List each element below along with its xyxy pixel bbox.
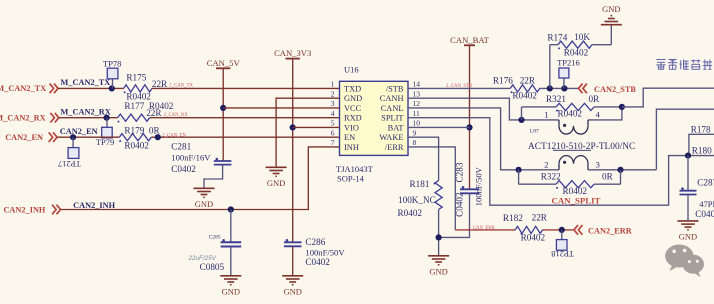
wire VCC row [223,107,339,109]
svg-text:GND: GND [429,266,447,276]
label ACT1210-510-2P-TL00/NC [528,142,635,152]
svg-text:CAN_3V3: CAN_3V3 [274,48,311,58]
svg-text:R0402: R0402 [398,208,423,218]
svg-text:22R: 22R [152,79,168,89]
svg-text:0R: 0R [589,94,601,104]
svg-text:7: 7 [331,138,335,147]
svg-text:/ERR: /ERR [385,143,404,152]
polarity dot bottom winding [563,161,566,164]
svg-text:3: 3 [596,160,601,170]
wire RX row [59,117,340,119]
svg-text:R0402: R0402 [124,141,149,151]
svg-text:4: 4 [596,110,601,120]
svg-text:EN: EN [344,133,355,142]
junction ERR/TP218 [559,227,565,233]
ground R181 [428,256,449,276]
wire CANL [408,108,559,170]
svg-text:BAT: BAT [388,123,404,132]
svg-text:GND: GND [267,178,285,188]
svg-text:22R: 22R [532,212,548,222]
svg-text:100nF/50V: 100nF/50V [473,166,483,206]
ground inverted top right [601,4,622,25]
resistor R181 [434,181,443,210]
svg-text:CANL: CANL [381,104,404,113]
svg-text:4: 4 [331,109,335,118]
wire R321 left stub [521,107,523,120]
wire C285 to ground [230,247,232,276]
junction CAN_5V/VCC [220,105,226,111]
port M_CAN2_RX [0,113,59,123]
junction choke pin1/R321 [518,117,524,123]
svg-text:GND: GND [344,94,362,103]
svg-text:R179 0R: R179 0R [124,126,160,136]
resistor R177 [118,114,150,123]
junction INH/C285 [228,206,234,212]
svg-text:R181: R181 [410,179,430,189]
svg-text:3: 3 [331,99,335,108]
junction STB/TP216 [561,85,567,91]
port CAN2_STB [579,84,637,94]
port CAN2_EN [5,132,57,142]
svg-text:M_CAN2_RX: M_CAN2_RX [61,108,111,117]
svg-text:R178: R178 [691,124,711,134]
svg-text:C0402: C0402 [695,209,714,219]
svg-text:TXD: TXD [344,84,361,93]
svg-text:5: 5 [331,119,335,128]
wire CANL out [656,109,714,170]
svg-text:C283: C283 [455,162,465,182]
svg-text:SPLIT: SPLIT [381,114,403,123]
svg-text:C285: C285 [209,235,221,241]
svg-text:2: 2 [544,160,548,170]
capacitor C286 [284,239,302,246]
svg-text:CAN_SPLIT: CAN_SPLIT [552,195,601,205]
svg-text:22R: 22R [520,75,536,85]
svg-text:R182: R182 [503,213,523,223]
wire GND pin2 [276,98,339,167]
wire EN row [57,136,339,138]
svg-text:/STB: /STB [386,84,404,93]
svg-text:R0402: R0402 [564,48,589,58]
svg-text:R322: R322 [541,171,561,181]
svg-text:TJA1043T: TJA1043T [336,164,374,174]
svg-text:CAN2_INH: CAN2_INH [73,201,115,210]
wire CAN_BAT stem [469,45,471,189]
capacitor C287 [680,187,697,194]
junction EN after R179 [155,134,161,140]
power CAN_3V3 [274,48,311,59]
wire choke top row right [588,107,622,120]
wire INH row [61,147,340,210]
wire R174 left stub [549,45,551,89]
wire STB row [408,87,579,89]
svg-text:GND: GND [222,286,240,296]
svg-text:CAN_BAT: CAN_BAT [450,35,489,45]
svg-text:RXD: RXD [344,114,362,123]
ground C287 [678,221,699,242]
resistor R175 [124,85,152,94]
svg-text:2: 2 [331,89,335,98]
junction RX/TP79 [104,115,110,121]
svg-text:GND: GND [283,286,301,296]
svg-text:10: 10 [413,119,421,128]
wire WAKE pin [408,137,439,180]
resistor R174 [550,41,612,49]
testpoint TP79 [96,118,114,148]
testpoint TP78 [103,58,121,88]
wire C286 to ground [292,246,294,275]
power CAN_5V [207,58,241,69]
capacitor C283 [460,186,479,193]
wire ERR red [455,229,574,231]
svg-text:TP216: TP216 [557,57,580,67]
svg-text:R321: R321 [546,94,566,104]
svg-text:1: 1 [331,80,335,89]
svg-text:GND: GND [679,231,697,241]
svg-text:CAN2_EN: CAN2_EN [5,133,43,142]
svg-text:CAN2_ERR: CAN2_ERR [588,226,633,235]
svg-text:GND: GND [195,199,213,209]
ground IC pin2 [266,167,287,188]
junction choke pin2/R322 [516,167,522,173]
wire C281 to ground [204,165,223,189]
testpoint TP217 [58,137,81,169]
wire choke bottom row right [588,169,656,171]
svg-text:13: 13 [413,89,421,98]
svg-text:2_CAN_EN: 2_CAN_EN [162,134,186,139]
svg-text:VIO: VIO [344,123,359,132]
svg-text:8: 8 [413,138,417,147]
wire ERR pin [408,147,455,230]
wire CANH out [622,88,714,107]
resistor R179 [119,134,151,143]
svg-text:SOP-14: SOP-14 [337,174,365,184]
svg-text:R176: R176 [493,75,513,85]
svg-text:2_CAN_RX: 2_CAN_RX [164,113,189,118]
svg-text:22R: 22R [146,108,162,118]
wire R181 to ground [438,210,440,256]
svg-text:C287: C287 [697,178,714,188]
inductor L87 bottom winding [559,156,588,170]
svg-text:R0402: R0402 [521,233,546,243]
wire R322 left stub [518,170,520,184]
svg-text:CAN2_INH: CAN2_INH [3,205,45,214]
wire C283 to ground node [439,193,470,237]
ground C285 [220,276,241,297]
testpoint TP216 [557,57,580,88]
op-amp U1 IC body U16 [340,81,409,155]
svg-text:10K: 10K [574,32,590,42]
svg-text:M_CAN2_TX: M_CAN2_TX [61,78,111,87]
svg-text:R0402: R0402 [558,109,583,119]
svg-text:14: 14 [413,80,421,89]
junction TX/TP78 [109,85,115,91]
svg-text:R175: R175 [126,72,146,82]
svg-text:12: 12 [413,99,421,108]
svg-text:2_CAN_ERR: 2_CAN_ERR [468,226,495,231]
wire CANH [408,98,559,120]
ground C286 [282,276,303,297]
svg-text:6: 6 [331,128,335,137]
watermark wechat icon [665,245,704,278]
svg-text:R174: R174 [547,32,567,42]
power CAN_BAT [450,35,489,46]
junction R181/C283 ground node [436,234,442,240]
wire R178 row [689,134,714,155]
svg-text:R180: R180 [692,146,712,156]
svg-text:TP78: TP78 [103,58,121,68]
inductor L87 top winding [559,120,588,134]
svg-text:TP218: TP218 [551,249,574,259]
svg-text:47PF/50V: 47PF/50V [699,199,714,209]
wire R322 right stub [620,170,622,184]
wire GND stem top [610,25,612,45]
junction STB/R174 [547,85,553,91]
wire C285 stem [230,210,232,243]
resistor R321 [522,103,622,111]
junction EN/TP217 [70,134,76,140]
svg-text:100nF/16V: 100nF/16V [171,153,211,163]
svg-text:CAN2_EN: CAN2_EN [60,127,98,136]
wire C287 stem [687,156,689,191]
svg-text:WAKE: WAKE [379,133,403,142]
port CAN2_INH [3,205,60,215]
polarity dot top winding [563,124,566,127]
svg-text:C0402: C0402 [171,164,196,174]
svg-text:R0402: R0402 [512,91,537,101]
svg-text:L87: L87 [530,129,539,135]
svg-text:TP79: TP79 [96,137,114,147]
svg-text:M_CAN2_RX: M_CAN2_RX [0,114,46,123]
resistor R176 [510,85,539,94]
svg-text:CAN2_STB: CAN2_STB [594,85,636,94]
port M_CAN2_TX [0,84,58,94]
capacitor C281 [214,158,232,165]
ground C281 [194,188,215,209]
svg-text:2_CAN_STB: 2_CAN_STB [446,84,472,89]
testpoint TP218 [551,230,574,259]
svg-text:C0402: C0402 [455,192,465,217]
junction R321 right node [619,104,625,110]
svg-text:M_CAN2_TX: M_CAN2_TX [0,84,46,93]
resistor R322 [519,181,621,189]
wire CAN_5V stem [222,68,224,161]
svg-text:CANH: CANH [380,94,404,103]
svg-text:2_CAN_TX: 2_CAN_TX [169,84,193,89]
svg-text:C0402: C0402 [305,257,330,267]
wire BAT pin [408,126,470,128]
svg-text:1: 1 [544,110,548,120]
svg-text:22uF/25V: 22uF/25V [188,255,217,262]
wire CAN_SPLIT [408,118,714,206]
wire C287 to ground [687,195,689,221]
junction CAN_3V3/VIO [290,124,296,130]
svg-text:TP217: TP217 [58,159,81,169]
svg-text:VCC: VCC [344,104,362,113]
junction R322 right node [617,167,623,173]
svg-text:100K_NC: 100K_NC [398,195,436,205]
svg-text:C281: C281 [171,141,191,151]
wire TX row [58,87,340,89]
annotation chinese text [656,60,714,70]
junction R180/C287 [685,153,691,159]
svg-text:C286: C286 [305,237,325,247]
svg-text:INH: INH [344,143,359,152]
wire VIO row [293,126,340,128]
svg-text:CAN_5V: CAN_5V [207,58,241,68]
svg-text:0R: 0R [602,171,614,181]
svg-text:9: 9 [413,128,417,137]
resistor R182 [515,226,542,234]
svg-text:C0805: C0805 [200,262,225,272]
wire CAN_3V3 stem [292,59,294,243]
svg-text:11: 11 [413,109,420,118]
svg-text:GND: GND [602,4,620,14]
junction CAN_BAT/BAT [466,124,472,130]
svg-text:U16: U16 [344,65,359,75]
capacitor C285 [221,239,242,247]
port CAN2_ERR [574,225,633,235]
